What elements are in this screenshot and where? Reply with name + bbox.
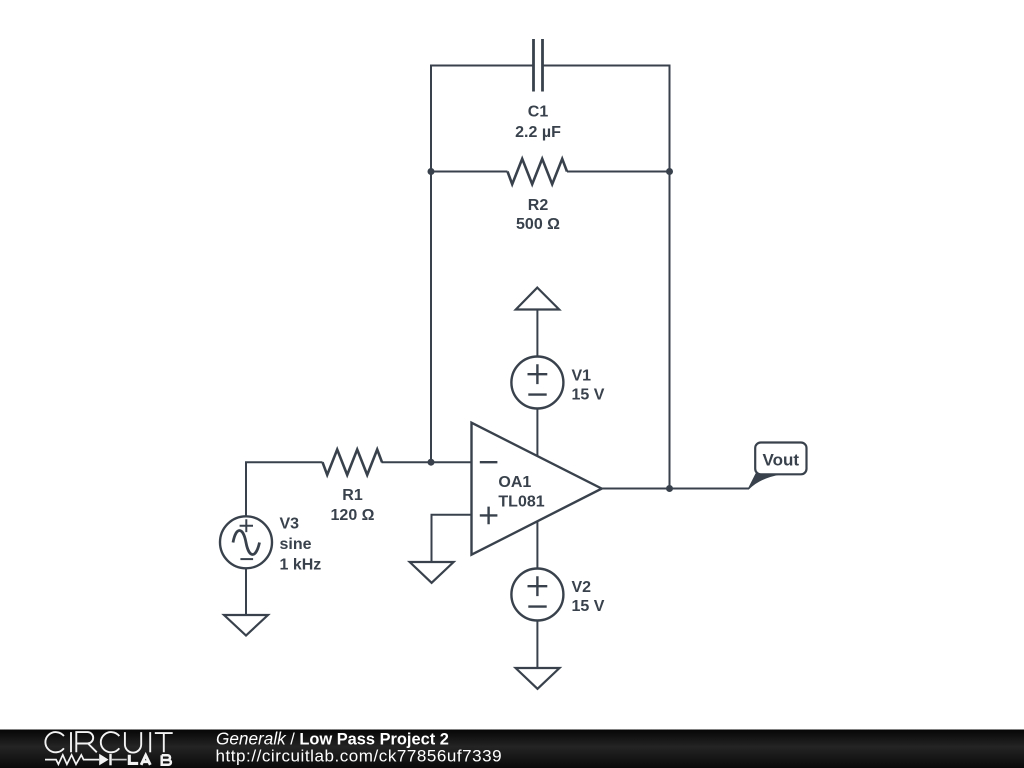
wire V1 to op-amp — [536, 408, 538, 456]
svg-text:V2: V2 — [572, 579, 592, 596]
node junction (output) — [666, 485, 673, 492]
wire left feedback vertical — [430, 65, 432, 463]
svg-text:Vout: Vout — [763, 451, 800, 470]
svg-text:120 Ω: 120 Ω — [331, 507, 375, 524]
footer title text — [216, 729, 449, 749]
wire right feedback vertical — [669, 65, 671, 489]
svg-text:15 V: 15 V — [572, 598, 605, 615]
svg-text:Generalk / Low Pass Project 2: Generalk / Low Pass Project 2 — [216, 729, 449, 749]
net flag Vout — [749, 443, 807, 489]
ground (non-inverting input) — [410, 562, 454, 583]
resistor R2 — [508, 159, 568, 233]
wire R2 left lead — [431, 171, 508, 173]
node junction (inverting input) — [428, 459, 435, 466]
capacitor C1 — [515, 39, 561, 141]
CircuitLab logo squiggle (resistor + diode) — [45, 754, 127, 766]
svg-text:TL081: TL081 — [498, 494, 544, 511]
wire R1 to op-amp inverting input — [382, 461, 472, 463]
svg-text:V3: V3 — [280, 516, 300, 533]
resistor R1 — [323, 450, 383, 524]
voltage source V2 — [511, 569, 604, 621]
svg-text:R1: R1 — [342, 487, 363, 504]
svg-text:15 V: 15 V — [572, 387, 605, 404]
svg-text:sine: sine — [280, 536, 312, 553]
wire R2 right lead — [567, 171, 670, 173]
node junction (R2 right) — [666, 168, 673, 175]
node junction (R2 left) — [428, 168, 435, 175]
wire power arrow to V1 — [536, 310, 538, 357]
ground (V3) — [224, 615, 268, 636]
wire top-left (C1 left lead) — [431, 65, 533, 67]
voltage source V1 — [511, 357, 604, 409]
svg-text:V1: V1 — [572, 367, 592, 384]
ground (V2) — [516, 668, 560, 689]
svg-text:http://circuitlab.com/ck77856u: http://circuitlab.com/ck77856uf7339 — [216, 747, 503, 766]
svg-text:C1: C1 — [528, 104, 549, 121]
wire non-inverting input to ground — [432, 515, 472, 562]
CircuitLab logo LAB — [129, 755, 171, 765]
footer bar — [0, 730, 1024, 768]
power supply arrow V+ — [516, 288, 559, 310]
wire op-amp output to Vout — [602, 488, 749, 490]
svg-text:2.2 µF: 2.2 µF — [515, 124, 561, 141]
wire top-right (C1 right lead) — [543, 65, 670, 67]
svg-text:1 kHz: 1 kHz — [280, 556, 322, 573]
svg-text:OA1: OA1 — [498, 474, 531, 491]
voltage source V3 — [220, 516, 321, 574]
op-amp OA1 — [472, 423, 602, 555]
wire V2 to ground — [536, 620, 538, 668]
footer url text — [216, 747, 503, 766]
wire op-amp to V2 — [536, 521, 538, 569]
svg-text:R2: R2 — [528, 197, 549, 214]
CircuitLab logo CIRCUIT — [45, 732, 172, 752]
wire V3 to R1 — [246, 462, 323, 516]
wire V3 to ground — [245, 569, 247, 616]
svg-text:500 Ω: 500 Ω — [516, 216, 560, 233]
